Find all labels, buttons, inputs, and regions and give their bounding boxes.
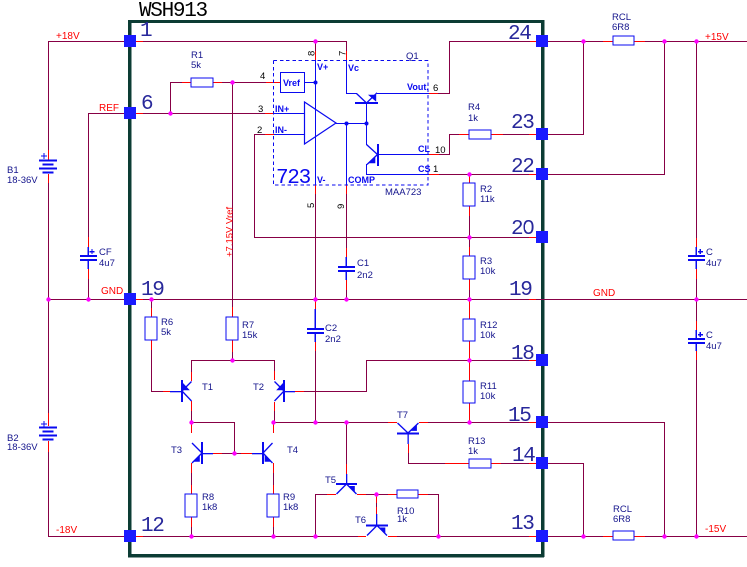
node opamp out COMP [345,122,349,126]
node T2 T4 [271,420,275,424]
wire CL riser column [449,134,450,154]
wire Vout riser column [449,41,450,94]
svg-text:COMP: COMP [348,175,375,185]
wire -18V outside [48,536,124,537]
wire pin9 COMP drop to C1 [346,185,347,194]
svg-text:T6: T6 [355,515,366,526]
wire R4 row to pin23 [449,134,469,135]
svg-text:IN+: IN+ [275,104,289,114]
wire pin8 V+ riser [315,41,316,51]
svg-text:8: 8 [307,51,318,56]
svg-text:5k: 5k [191,60,201,71]
node Vref V+ [314,81,318,85]
wire T1 emitter drop [191,401,192,411]
wire mirror drop column [234,422,235,453]
node T1 T3 [189,420,193,424]
transistor T3 [192,442,213,464]
svg-text:7: 7 [338,51,349,56]
wire IN- drop column [254,134,255,237]
svg-text:+18V: +18V [56,31,80,42]
svg-text:6: 6 [141,93,153,116]
svg-text:13: 13 [511,513,534,536]
wire pin23 riser outside [583,41,584,134]
wire Vout internal [377,93,429,94]
svg-text:18-36V: 18-36V [7,175,38,186]
svg-text:V+: V+ [317,62,328,72]
wire CS internal [367,174,429,175]
transistor T5 [336,474,357,494]
wire R8 bottom [191,517,192,527]
node R1 right [230,80,234,84]
wire R6 column [151,299,152,308]
wire opamp output [336,123,367,124]
resistor R8 1k8 [185,494,197,517]
pin 12 [124,530,136,542]
svg-text:3: 3 [258,104,263,115]
svg-text:GND: GND [101,286,123,297]
wire -15V rail outside [546,536,747,537]
wire R2 R3 R12 R11 column [469,174,470,183]
resistor R7 15k [226,317,238,340]
wire Vref +7.15V column [232,82,233,307]
node R11 pin15 row [467,420,471,424]
svg-text:723: 723 [276,167,311,190]
internal blue junctions [314,81,369,126]
svg-text:10k: 10k [480,330,496,341]
svg-text:23: 23 [511,112,534,135]
wire pin6 to IN+ [136,113,265,114]
node GND B rail [46,297,50,301]
svg-text:IN-: IN- [275,125,287,135]
wire pin15 drop outside [664,422,665,536]
transistor T6 [366,514,388,536]
capacitor CF 4u7 [88,247,89,255]
transistor Q1 output device [355,93,378,104]
node pin15 drop rail [662,534,666,538]
wire pin15 outside [546,422,665,423]
svg-text:V-: V- [317,175,326,185]
node pin23 riser top [581,39,585,43]
wire CF rail [88,113,89,237]
svg-text:19: 19 [141,279,164,302]
transistor T7 [397,423,419,444]
capacitor C 4u7 lower right [696,330,697,338]
node R7 emitter rail [230,358,234,362]
svg-text:T7: T7 [397,410,408,421]
svg-text:24: 24 [508,23,531,46]
svg-text:19: 19 [509,279,532,302]
svg-text:20: 20 [511,218,534,241]
resistor R12 10k [463,319,475,341]
svg-text:18-36V: 18-36V [7,442,38,453]
transistor T2 [275,380,296,402]
svg-text:5: 5 [306,203,317,208]
wire T1 emitter to mirror [191,422,234,423]
pin 24 [536,35,548,47]
svg-text:CF: CF [99,247,112,258]
node cap rail top [694,39,698,43]
svg-text:4u7: 4u7 [99,258,115,269]
wire T2 collector riser [274,360,275,371]
wire T2 emitter drop [274,402,275,411]
wire R9 bottom [273,517,274,527]
resistor R4 1k [469,130,491,139]
svg-text:1: 1 [433,164,438,175]
wire +15V rail outside [546,41,747,42]
node pin22 riser top [662,39,666,43]
wire T3 T4 base tie [213,453,252,454]
wire R1 right to Vref pin4 [213,82,281,83]
Vref block inside 723 [281,73,305,93]
svg-text:T3: T3 [171,445,182,456]
wire T1 base feed [151,391,170,392]
pin 20 [536,231,548,243]
svg-text:1k: 1k [468,446,478,457]
svg-text:6R8: 6R8 [613,514,630,525]
wire REF outside [88,113,124,114]
op-amp triangle [305,102,337,144]
resistor RCL 6R8 top [613,36,634,45]
svg-text:Vc: Vc [348,63,359,73]
svg-text:1k: 1k [397,514,407,525]
pin 14 [536,457,548,469]
svg-text:2n2: 2n2 [325,334,341,345]
wire IN- loop to pin20 [254,237,536,238]
node R12 R11 pin18 [467,358,471,362]
svg-text:T1: T1 [202,382,213,393]
pin 13 [536,530,548,542]
svg-text:14: 14 [512,445,535,468]
svg-text:CL: CL [418,144,430,154]
node pin14 drop rail [581,534,585,538]
capacitor C1 2n2 [346,257,347,266]
svg-text:2n2: 2n2 [357,270,373,281]
transistor Q1 current limit device [367,144,380,166]
svg-text:T5: T5 [325,475,336,486]
svg-text:CS: CS [418,164,431,174]
zero dot patch for pin 20 [525,225,530,230]
wire pin18 row [366,360,536,361]
svg-text:4u7: 4u7 [706,258,722,269]
wire REF junction riser [170,82,171,113]
wire COMP internal [346,123,347,185]
capacitor C 4u7 upper right [696,247,697,255]
svg-text:4u7: 4u7 [706,341,722,352]
svg-text:MAA723: MAA723 [385,187,421,198]
wire pin22 riser outside [664,41,665,174]
wire pin14 drop outside [583,463,584,536]
wire Q1 output transistor base column [366,103,367,145]
wire T1 collector riser [191,360,192,372]
svg-text:T4: T4 [287,445,298,456]
svg-text:15k: 15k [242,330,258,341]
svg-text:5k: 5k [161,327,171,338]
wire T5 left leg [315,494,336,495]
wire right cap rail [696,41,697,238]
wire CL internal [378,154,429,155]
svg-text:-18V: -18V [56,525,77,536]
capacitor C2 2n2 [315,309,316,328]
pin squares [124,35,548,542]
svg-text:10: 10 [435,145,446,156]
wire V+ V- internal column [315,60,316,185]
svg-text:R4: R4 [468,102,480,113]
pin 6 [124,107,136,119]
svg-text:6R8: 6R8 [612,22,629,33]
battery B2 18-36V [39,427,57,429]
WSH913 board outline [128,20,545,558]
wire T7 base drop [408,444,409,453]
wire Vout riser to pin24 [449,41,537,42]
node GND right cap [694,297,698,301]
node GND CF [86,297,90,301]
svg-text:15: 15 [508,405,531,428]
pin 23 [536,128,548,140]
svg-text:Vref: Vref [283,78,301,88]
svg-text:22: 22 [511,156,534,179]
wire pin22 outside [546,174,665,175]
svg-text:10k: 10k [480,266,496,277]
svg-text:9: 9 [336,204,347,209]
resistor R10 1k [397,490,418,498]
node GND V- [313,297,317,301]
svg-text:6: 6 [433,83,438,94]
wire -18V inner rail [136,536,366,537]
wire T6 base column [376,494,377,503]
wire GND rail [48,299,747,300]
svg-text:C1: C1 [357,258,369,269]
resistor RCL 6R8 bottom [613,531,634,540]
wire T3 emitter to R8 [191,463,192,473]
svg-text:1k: 1k [468,113,478,124]
wire pin7 Vc riser [346,41,347,51]
wire T2 base riser to pin18 row [366,360,367,392]
resistor R6 5k [145,317,157,340]
wire T3 collector stub [191,422,192,433]
node R2 R3 pin20 [467,235,471,239]
svg-text:C: C [706,330,713,341]
wire pin14 row inside [408,463,469,464]
svg-text:Vout.: Vout. [407,82,429,92]
node R8 rail [189,534,193,538]
battery B1 18-36V [39,160,57,162]
node opamp out base [365,122,369,126]
svg-text:12: 12 [141,515,164,538]
node T5 drop rail [313,534,317,538]
pin 15 [536,416,548,428]
pin 1 [124,35,136,47]
svg-text:1k8: 1k8 [202,502,217,513]
wire Vc internal [346,60,347,93]
wire Vc jog [346,93,357,94]
svg-text:REF: REF [99,103,119,114]
svg-text:Q1: Q1 [406,51,419,62]
svg-text:1k8: 1k8 [283,502,298,513]
node GND C1 [344,297,348,301]
wire C2 column below GND [315,299,316,309]
resistor R11 10k [463,381,475,403]
op-amp U1 dashed outline Q1 [274,61,429,186]
svg-text:2: 2 [257,125,262,136]
svg-text:10k: 10k [480,391,496,402]
svg-text:+15V: +15V [705,32,729,43]
wire R10 right drop [438,494,439,536]
node V+ top [313,39,317,43]
node C2 pin15 row [313,420,317,424]
node T5 base pin15 row [344,420,348,424]
wire C1 bottom to GND [346,280,347,290]
pin 22 [536,168,548,180]
wire T5 base riser [346,422,347,464]
wire IN- stub [255,134,274,135]
svg-text:11k: 11k [480,194,495,205]
wire IN+ internal [274,113,305,114]
wire T1 T2 emitter rail [191,360,275,361]
resistor R3 10k [463,256,475,279]
node R10 drop rail [436,534,440,538]
node GND R3 R12 [467,297,471,301]
pin 18 [536,354,548,366]
svg-text:-15V: -15V [705,524,726,535]
wire +18V rail top left [48,41,124,42]
wire pin14 outside [546,463,584,464]
wire CS jog [366,164,367,175]
node T6 base R10 [374,492,378,496]
wire pin15 row inside [273,422,397,423]
transistor T1 [170,380,192,402]
node T3 T4 base tie [232,451,236,455]
transistor T4 [252,442,273,464]
wire T5 right to T6 base to R10 [357,494,397,495]
svg-text:C: C [706,247,713,258]
wire pin5 V- drop to GND [315,185,316,194]
wire left battery rail [48,41,49,150]
pin 19 left [124,293,136,305]
resistor R1 5k [191,78,213,87]
node REF junction [168,111,172,115]
resistor R9 1k8 [267,494,279,517]
svg-text:18: 18 [511,343,534,366]
wire Vout stub to riser [428,93,450,94]
svg-text:C2: C2 [325,323,337,334]
svg-text:GND: GND [593,288,615,299]
svg-text:4: 4 [260,71,265,82]
wire T5 left drop [315,494,316,536]
node CS R2 [467,172,471,176]
wire T6 right to pin13 [388,536,536,537]
wire CL to R4 riser [428,154,450,155]
node R9 rail [271,534,275,538]
svg-text:+7.15V Vref: +7.15V Vref [225,207,236,257]
wire CS row to pin22 [428,174,536,175]
wire T2 base feed [295,391,366,392]
resistor R13 1k [469,459,491,468]
wire T4 emitter to R9 [273,463,274,473]
wire T4 collector stub [273,422,274,433]
svg-text:1: 1 [140,20,152,43]
svg-text:T2: T2 [253,382,264,393]
node cap rail bottom [694,534,698,538]
wire R10 right [418,494,438,495]
wire Vref to V+ blue link [305,82,316,83]
wire IN- internal [274,134,305,135]
resistor R2 11k [463,183,475,206]
wire pin23 outside [546,134,584,135]
node GND R6 [149,297,153,301]
wire pin1 to Vc riser [136,41,346,42]
wire R1 left branch [170,82,191,83]
